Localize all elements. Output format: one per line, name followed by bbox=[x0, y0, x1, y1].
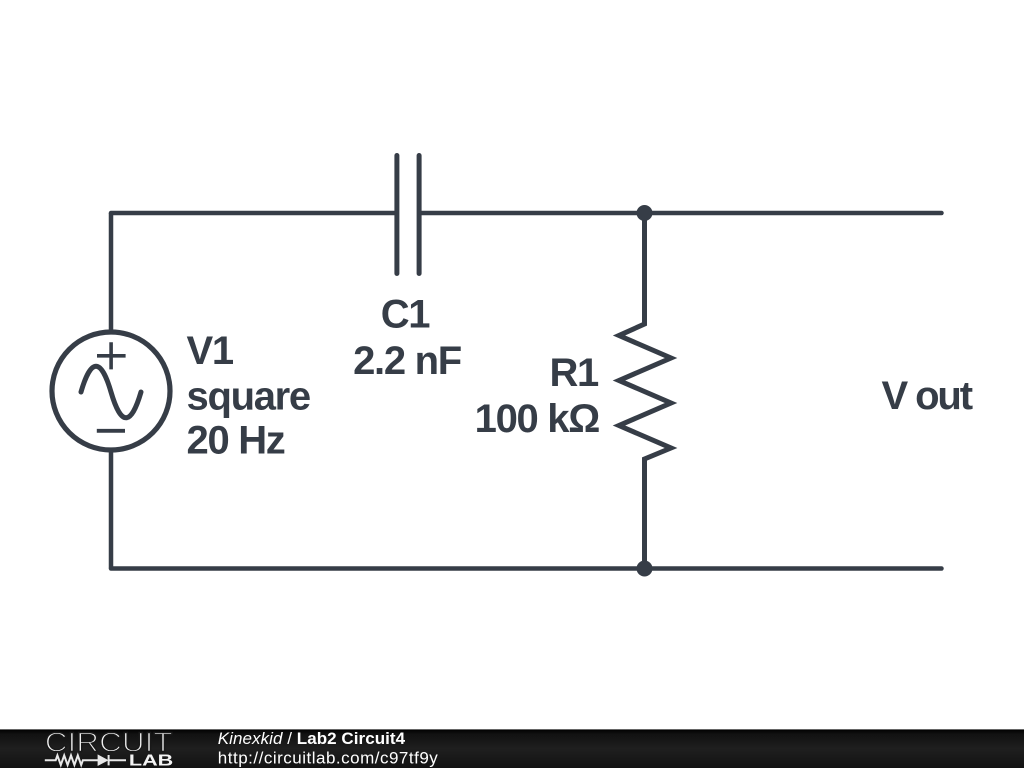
resistor R1 bbox=[619, 213, 671, 569]
capacitor C1 bbox=[397, 156, 419, 274]
svg-text:Kinexkid / Lab2 Circuit4: Kinexkid / Lab2 Circuit4 bbox=[218, 729, 406, 748]
svg-text:2.2 nF: 2.2 nF bbox=[353, 339, 461, 383]
svg-text:square: square bbox=[187, 374, 310, 418]
junction top bbox=[637, 205, 653, 221]
wire top left bbox=[111, 211, 396, 216]
CircuitLab logo icon bbox=[45, 755, 126, 765]
svg-text:20 Hz: 20 Hz bbox=[187, 419, 285, 463]
wire bottom bbox=[111, 566, 942, 571]
footer bar bbox=[0, 729, 1024, 768]
wire top right bbox=[420, 211, 942, 216]
voltage source V1 bbox=[52, 213, 170, 569]
svg-text:100 kΩ: 100 kΩ bbox=[475, 397, 600, 441]
junction bottom bbox=[637, 561, 653, 577]
svg-text:LAB: LAB bbox=[129, 753, 173, 768]
svg-text:C1: C1 bbox=[381, 293, 431, 337]
svg-text:http://circuitlab.com/c97tf9y: http://circuitlab.com/c97tf9y bbox=[218, 748, 438, 767]
svg-text:R1: R1 bbox=[549, 351, 599, 395]
svg-text:V1: V1 bbox=[187, 329, 234, 373]
svg-text:V out: V out bbox=[882, 374, 973, 418]
